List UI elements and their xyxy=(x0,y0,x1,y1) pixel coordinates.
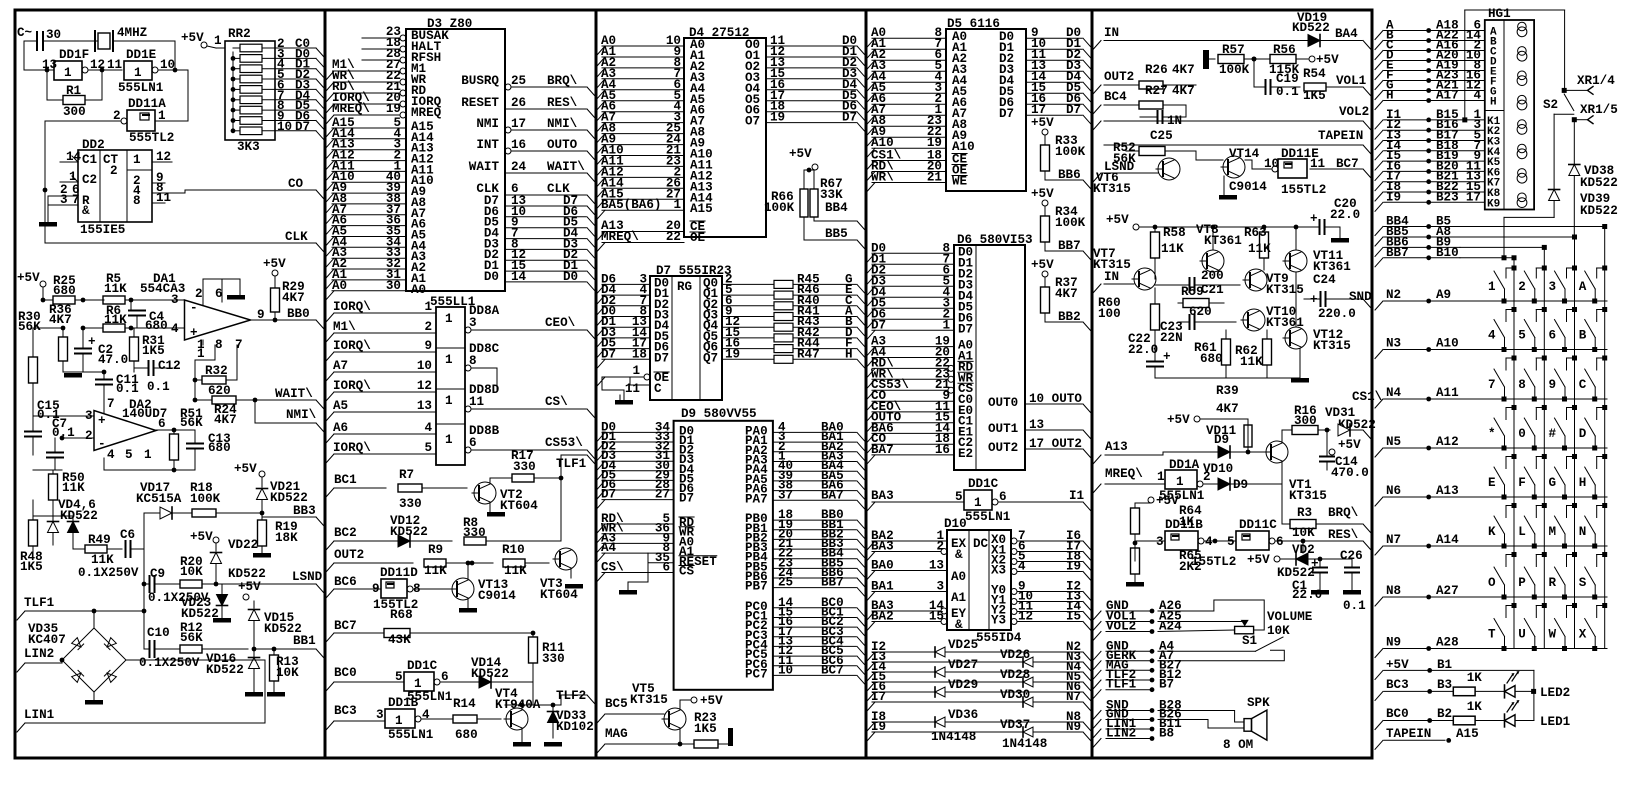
svg-text:R27: R27 xyxy=(1145,84,1168,98)
+5V VD2 xyxy=(1274,556,1280,562)
svg-text:+5V: +5V xyxy=(1316,53,1339,67)
svg-text:LSND: LSND xyxy=(292,570,323,584)
svg-text:0.1: 0.1 xyxy=(116,382,139,396)
svg-text:25: 25 xyxy=(511,74,526,88)
svg-text:47.0: 47.0 xyxy=(98,353,128,367)
svg-text:4K7: 4K7 xyxy=(1172,63,1195,77)
svg-text:OUT2: OUT2 xyxy=(988,441,1018,455)
+5V R37 xyxy=(1042,271,1048,277)
wire DA1 feedback xyxy=(194,360,196,400)
svg-text:+5V: +5V xyxy=(1167,413,1190,427)
svg-text:VD28: VD28 xyxy=(1000,668,1030,682)
key switch 9 xyxy=(1562,397,1567,402)
node BB0 xyxy=(273,318,278,323)
svg-text:A17: A17 xyxy=(1436,89,1459,103)
svg-text:BRQ\: BRQ\ xyxy=(1328,506,1359,520)
svg-text:B2: B2 xyxy=(1437,707,1452,721)
svg-text:IORQ\: IORQ\ xyxy=(333,379,371,393)
key switch C xyxy=(1592,397,1597,402)
svg-text:N5: N5 xyxy=(1386,435,1401,449)
ground VT2 xyxy=(489,502,491,512)
+5V DA1 left xyxy=(40,281,46,287)
svg-text:PA7: PA7 xyxy=(745,492,768,506)
svg-text:5: 5 xyxy=(395,670,403,684)
svg-text:CS\: CS\ xyxy=(545,395,568,409)
svg-text:1: 1 xyxy=(144,448,152,462)
svg-text:+: + xyxy=(98,414,106,428)
svg-text:D10: D10 xyxy=(944,517,967,531)
svg-text:WAIT\: WAIT\ xyxy=(547,160,585,174)
svg-text:0: 0 xyxy=(1518,427,1526,441)
key switch 3 xyxy=(1562,299,1567,304)
resistor R42 xyxy=(774,334,793,342)
resistor R44 xyxy=(774,345,793,353)
svg-text:DD1F: DD1F xyxy=(59,48,89,62)
svg-text:4K7: 4K7 xyxy=(1055,287,1078,301)
key switch G xyxy=(1562,495,1567,500)
node BB5 xyxy=(803,217,805,240)
svg-text:KD522: KD522 xyxy=(471,667,509,681)
svg-text:VD27: VD27 xyxy=(948,658,978,672)
svg-text:2: 2 xyxy=(424,320,432,334)
svg-text:N: N xyxy=(1579,525,1587,539)
svg-text:N9: N9 xyxy=(1066,720,1081,734)
svg-text:A1: A1 xyxy=(951,591,967,605)
key switch A xyxy=(1592,299,1597,304)
svg-text:MREQ\: MREQ\ xyxy=(332,102,370,116)
svg-text:R26: R26 xyxy=(1145,63,1168,77)
svg-text:DD1E: DD1E xyxy=(126,48,157,62)
ground amp xyxy=(1155,377,1300,379)
svg-text:1: 1 xyxy=(445,433,453,447)
svg-text:11K: 11K xyxy=(504,564,527,578)
svg-text:&: & xyxy=(955,618,963,632)
key switch L xyxy=(1532,544,1537,549)
svg-text:-: - xyxy=(98,437,106,451)
ground VT4 VD33 xyxy=(521,728,523,742)
svg-text:555TL2: 555TL2 xyxy=(129,131,174,145)
svg-text:8: 8 xyxy=(215,338,223,352)
key switch B xyxy=(1592,347,1597,352)
svg-text:BA4: BA4 xyxy=(1335,27,1358,41)
ground C2 xyxy=(63,371,83,373)
node BB4 xyxy=(813,217,815,221)
svg-text:100K: 100K xyxy=(1219,63,1250,77)
svg-text:2: 2 xyxy=(110,164,118,178)
svg-text:VD37: VD37 xyxy=(1000,718,1030,732)
svg-text:+5V: +5V xyxy=(263,257,286,271)
RR2 element C0 xyxy=(240,44,262,52)
svg-text:4K7: 4K7 xyxy=(49,313,72,327)
RR2 element D3 xyxy=(240,86,262,94)
svg-text:K: K xyxy=(1488,525,1496,539)
svg-text:C: C xyxy=(1579,378,1587,392)
svg-text:7: 7 xyxy=(107,397,115,411)
svg-text:Q7: Q7 xyxy=(703,351,718,365)
svg-text:CS1\: CS1\ xyxy=(1352,390,1383,404)
svg-text:K9: K9 xyxy=(1487,198,1500,210)
svg-text:2: 2 xyxy=(195,287,203,301)
svg-text:+5V: +5V xyxy=(190,530,213,544)
svg-text:A13: A13 xyxy=(1436,484,1459,498)
svg-text:C~: C~ xyxy=(17,26,32,40)
svg-text:C12: C12 xyxy=(158,359,181,373)
svg-text:I1: I1 xyxy=(1069,489,1085,503)
key switch F xyxy=(1532,495,1537,500)
svg-text:1: 1 xyxy=(64,66,72,80)
svg-text:56K: 56K xyxy=(180,631,203,645)
svg-text:KT361: KT361 xyxy=(1266,316,1304,330)
svg-text:OUT2: OUT2 xyxy=(1104,70,1134,84)
svg-text:9: 9 xyxy=(1549,378,1557,392)
svg-text:KD522: KD522 xyxy=(1580,176,1618,190)
svg-text:1N4148: 1N4148 xyxy=(931,730,976,744)
svg-text:A: A xyxy=(1579,280,1587,294)
svg-text:TAPEIN: TAPEIN xyxy=(1318,129,1363,143)
key switch 7 xyxy=(1502,397,1507,402)
svg-text:4: 4 xyxy=(107,448,115,462)
svg-text:10: 10 xyxy=(277,120,292,134)
svg-text:NMI\: NMI\ xyxy=(286,408,317,422)
svg-text:6: 6 xyxy=(1549,329,1557,343)
svg-text:VOL1: VOL1 xyxy=(1336,74,1367,88)
svg-text:13: 13 xyxy=(42,58,57,72)
svg-text:S: S xyxy=(1579,576,1587,590)
key switch R xyxy=(1562,595,1567,600)
svg-text:17: 17 xyxy=(511,117,526,131)
svg-text:B8: B8 xyxy=(1159,727,1174,741)
svg-text:11K: 11K xyxy=(104,313,127,327)
svg-text:VD26: VD26 xyxy=(1000,648,1030,662)
svg-text:1: 1 xyxy=(395,714,403,728)
svg-text:P: P xyxy=(1518,576,1526,590)
key switch 0 xyxy=(1532,446,1537,451)
svg-text:&: & xyxy=(82,204,90,218)
svg-text:N9: N9 xyxy=(1386,636,1401,650)
resistor R46 xyxy=(774,291,793,299)
svg-text:KC407: KC407 xyxy=(28,633,66,647)
svg-text:INT: INT xyxy=(476,138,499,152)
svg-text:12: 12 xyxy=(417,379,432,393)
svg-text:D7: D7 xyxy=(679,492,694,506)
svg-text:3: 3 xyxy=(376,708,384,722)
svg-text:WE: WE xyxy=(952,175,968,189)
svg-text:D9 580VV55: D9 580VV55 xyxy=(681,407,757,421)
ground C20 xyxy=(1331,238,1349,243)
svg-text:MREQ\: MREQ\ xyxy=(601,230,639,244)
+5V R39 xyxy=(1194,416,1200,422)
ground D7 xyxy=(619,395,621,400)
svg-text:B1: B1 xyxy=(1437,658,1453,672)
+5V R56 xyxy=(1309,56,1315,62)
svg-text:+5V: +5V xyxy=(1156,494,1179,508)
svg-text:DC: DC xyxy=(973,537,989,551)
svg-text:BA3: BA3 xyxy=(871,489,894,503)
svg-text:KD522: KD522 xyxy=(1292,21,1330,35)
svg-text:RESET: RESET xyxy=(461,96,499,110)
svg-text:VD36: VD36 xyxy=(948,708,978,722)
svg-text:+: + xyxy=(88,335,96,349)
svg-text:300: 300 xyxy=(63,105,86,119)
svg-text:8: 8 xyxy=(1518,378,1526,392)
svg-text:E2: E2 xyxy=(958,447,973,461)
svg-text:H: H xyxy=(1579,476,1587,490)
svg-text:6: 6 xyxy=(158,417,166,431)
svg-text:C6: C6 xyxy=(120,528,135,542)
svg-text:1: 1 xyxy=(445,394,453,408)
svg-text:555LN1: 555LN1 xyxy=(965,510,1011,524)
svg-text:D7: D7 xyxy=(295,120,310,134)
svg-text:9: 9 xyxy=(424,339,432,353)
svg-text:O7: O7 xyxy=(745,115,760,129)
D7 pin 11 C xyxy=(630,384,650,386)
svg-text:11K: 11K xyxy=(424,564,447,578)
svg-text:+: + xyxy=(1311,557,1319,571)
svg-text:555LN1: 555LN1 xyxy=(118,81,164,95)
key switch M xyxy=(1562,544,1567,549)
+5V R33 xyxy=(1042,129,1048,135)
RR2 element D5 xyxy=(240,106,262,114)
svg-text:5: 5 xyxy=(1518,329,1526,343)
svg-text:A5: A5 xyxy=(333,399,348,413)
svg-text:BC2: BC2 xyxy=(334,526,357,540)
svg-text:IN: IN xyxy=(1104,270,1119,284)
svg-text:#: # xyxy=(1549,427,1557,441)
svg-text:OE: OE xyxy=(690,231,706,245)
svg-text:F: F xyxy=(1518,476,1526,490)
svg-text:330: 330 xyxy=(463,526,486,540)
svg-text:BC0: BC0 xyxy=(1386,707,1409,721)
svg-text:IN: IN xyxy=(1104,26,1119,40)
svg-text:WAIT: WAIT xyxy=(469,160,500,174)
D9 CS ground xyxy=(647,553,649,582)
svg-text:BC3: BC3 xyxy=(334,704,357,718)
svg-text:BC4: BC4 xyxy=(1104,90,1127,104)
svg-text:+: + xyxy=(1310,293,1318,307)
key switch 4 xyxy=(1502,347,1507,352)
svg-text:KT315: KT315 xyxy=(630,693,668,707)
svg-text:1: 1 xyxy=(1176,475,1184,489)
svg-text:+5V: +5V xyxy=(238,580,261,594)
svg-text:4K7: 4K7 xyxy=(1172,84,1195,98)
svg-text:18K: 18K xyxy=(275,531,298,545)
svg-text:1: 1 xyxy=(158,109,166,123)
svg-text:SND: SND xyxy=(1349,290,1372,304)
svg-text:S2: S2 xyxy=(1543,98,1558,112)
svg-text:IORQ\: IORQ\ xyxy=(333,300,371,314)
key switch P xyxy=(1532,595,1537,600)
svg-text:330: 330 xyxy=(513,460,536,474)
svg-text:PB7: PB7 xyxy=(745,580,768,594)
svg-text:RES\: RES\ xyxy=(1328,528,1359,542)
svg-text:A15: A15 xyxy=(690,202,713,216)
svg-text:VD22: VD22 xyxy=(228,538,258,552)
column bus BB6 xyxy=(1542,245,1547,250)
svg-text:C2: C2 xyxy=(82,173,97,187)
svg-text:6: 6 xyxy=(1276,535,1284,549)
svg-text:100K: 100K xyxy=(1055,145,1086,159)
svg-text:*: * xyxy=(1488,427,1496,441)
svg-text:4K7: 4K7 xyxy=(1216,402,1239,416)
svg-text:10: 10 xyxy=(417,359,432,373)
key switch X xyxy=(1592,646,1597,651)
svg-text:BB4: BB4 xyxy=(825,201,848,215)
svg-text:3: 3 xyxy=(1549,280,1557,294)
svg-text:4: 4 xyxy=(1205,535,1213,549)
ground VT6 VT14 xyxy=(1223,176,1225,195)
svg-text:1K5: 1K5 xyxy=(20,560,43,574)
svg-text:C1: C1 xyxy=(82,153,98,167)
svg-text:BB3: BB3 xyxy=(293,504,316,518)
svg-text:TLF1: TLF1 xyxy=(24,596,55,610)
+5V amp rail xyxy=(1133,224,1139,230)
resistor R41 xyxy=(774,313,793,321)
svg-text:N6: N6 xyxy=(1386,484,1401,498)
svg-text:8: 8 xyxy=(133,194,141,208)
svg-text:22.0: 22.0 xyxy=(1128,343,1158,357)
svg-text:4K7: 4K7 xyxy=(282,291,305,305)
svg-text:4: 4 xyxy=(171,322,179,336)
svg-text:1: 1 xyxy=(1488,280,1496,294)
svg-text:WAIT\: WAIT\ xyxy=(275,387,313,401)
svg-text:470.0: 470.0 xyxy=(1331,466,1369,480)
svg-text:11: 11 xyxy=(107,58,123,72)
svg-text:B10: B10 xyxy=(1436,246,1459,260)
key switch E xyxy=(1502,495,1507,500)
svg-text:VD10: VD10 xyxy=(1203,462,1233,476)
key switch D xyxy=(1592,446,1597,451)
svg-text:1: 1 xyxy=(414,677,422,691)
svg-text:5: 5 xyxy=(1227,535,1235,549)
svg-text:A0: A0 xyxy=(951,570,966,584)
ground R19 xyxy=(253,553,271,558)
wire HG1 pin1 to S2 xyxy=(1462,117,1467,122)
svg-text:+5V: +5V xyxy=(700,694,723,708)
svg-text:100K: 100K xyxy=(190,492,221,506)
LED2 xyxy=(1475,690,1504,692)
svg-text:-: - xyxy=(190,301,198,315)
svg-text:DD1C: DD1C xyxy=(968,477,999,491)
svg-text:1K5: 1K5 xyxy=(142,344,165,358)
svg-text:KD522: KD522 xyxy=(206,663,244,677)
svg-text:D: D xyxy=(1579,427,1587,441)
svg-text:1: 1 xyxy=(1157,470,1165,484)
wire DA2 out xyxy=(174,469,195,471)
wire left vertical run xyxy=(44,121,46,243)
wire to DD11A xyxy=(187,70,189,121)
svg-text:43K: 43K xyxy=(388,633,411,647)
svg-text:0.1X250V: 0.1X250V xyxy=(78,566,139,580)
svg-text:A14: A14 xyxy=(1436,533,1459,547)
svg-text:1: 1 xyxy=(974,496,982,510)
column bus BB5 xyxy=(1572,235,1577,240)
key switch U xyxy=(1532,646,1537,651)
svg-text:MAG: MAG xyxy=(605,727,628,741)
resistor R43 xyxy=(774,323,793,331)
svg-text:10K: 10K xyxy=(180,565,203,579)
svg-text:KD522: KD522 xyxy=(390,525,428,539)
svg-text:D7: D7 xyxy=(958,322,973,336)
+5V R29 xyxy=(272,270,278,276)
svg-text:1K5: 1K5 xyxy=(694,722,717,736)
wire bridge top to TLF net xyxy=(93,611,95,628)
key switch H xyxy=(1592,495,1597,500)
svg-text:KT315: KT315 xyxy=(1266,283,1304,297)
svg-text:VT14: VT14 xyxy=(1229,147,1260,161)
wire osc top xyxy=(23,41,25,70)
svg-text:D9: D9 xyxy=(1233,478,1248,492)
svg-text:VOLUME: VOLUME xyxy=(1267,610,1313,624)
svg-text:11K: 11K xyxy=(62,481,85,495)
svg-text:CS: CS xyxy=(679,565,695,579)
svg-text:100K: 100K xyxy=(764,201,795,215)
svg-text:24: 24 xyxy=(511,160,527,174)
key switch T xyxy=(1502,646,1507,651)
svg-text:1: 1 xyxy=(133,153,141,167)
svg-text:+5V: +5V xyxy=(234,462,257,476)
ground VD16 R13 xyxy=(245,692,263,697)
svg-text:1: 1 xyxy=(445,312,453,326)
svg-text:330: 330 xyxy=(542,652,565,666)
RR2 element D1 xyxy=(240,65,262,73)
svg-text:6: 6 xyxy=(662,561,670,575)
svg-text:7: 7 xyxy=(235,338,243,352)
svg-text:+5V: +5V xyxy=(1247,553,1270,567)
svg-text:N7: N7 xyxy=(1066,690,1081,704)
svg-text:1: 1 xyxy=(424,300,432,314)
svg-text:19: 19 xyxy=(386,102,401,116)
key switch 6 xyxy=(1562,347,1567,352)
svg-text:RES\: RES\ xyxy=(547,96,578,110)
svg-text:555LN1: 555LN1 xyxy=(388,728,434,742)
key switch W xyxy=(1562,646,1567,651)
svg-text:R39: R39 xyxy=(1216,384,1239,398)
svg-text:BC3: BC3 xyxy=(1386,678,1409,692)
svg-text:BC5: BC5 xyxy=(605,697,628,711)
svg-text:A0: A0 xyxy=(411,283,426,297)
RR2 element D7 xyxy=(240,127,262,135)
ground R23 xyxy=(728,728,733,746)
svg-text:KT315: KT315 xyxy=(1313,339,1351,353)
svg-text:22N: 22N xyxy=(1160,331,1183,345)
wire CO row xyxy=(184,190,186,193)
svg-text:A10: A10 xyxy=(1436,337,1459,351)
svg-text:C9: C9 xyxy=(150,567,165,581)
svg-text:+: + xyxy=(1310,212,1318,226)
D7 pin 1 OE xyxy=(644,374,650,380)
node LSND xyxy=(216,583,316,585)
svg-text:BB1: BB1 xyxy=(293,634,316,648)
ground C1 C26 xyxy=(1311,590,1329,595)
svg-text:680: 680 xyxy=(208,441,231,455)
svg-text:8 OM: 8 OM xyxy=(1223,738,1253,752)
svg-text:Y3: Y3 xyxy=(991,614,1006,628)
svg-text:N4: N4 xyxy=(1386,386,1402,400)
svg-text:BRQ\: BRQ\ xyxy=(547,74,578,88)
svg-text:KT361: KT361 xyxy=(1204,234,1242,248)
svg-text:R54: R54 xyxy=(1303,67,1326,81)
svg-text:A9: A9 xyxy=(1436,288,1451,302)
ground DD2 xyxy=(47,196,49,222)
svg-text:16: 16 xyxy=(511,138,526,152)
svg-text:R68: R68 xyxy=(390,608,413,622)
svg-text:C25: C25 xyxy=(1150,129,1173,143)
svg-text:R: R xyxy=(1549,576,1557,590)
svg-text:4MHZ: 4MHZ xyxy=(117,26,147,40)
panel frame borders xyxy=(15,10,1372,758)
svg-text:S1: S1 xyxy=(1242,634,1258,648)
svg-text:555ID4: 555ID4 xyxy=(976,631,1022,645)
